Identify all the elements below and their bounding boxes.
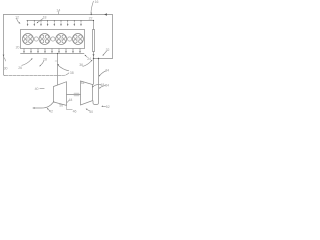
charge air cooler 22 (narrow rectangle) [93, 30, 95, 52]
wire: compressor inlet down-pipe [93, 59, 99, 105]
wire: turbine feed pipe [57, 54, 59, 86]
svg-text:30: 30 [4, 67, 8, 71]
exhaust runners with arrows [23, 49, 81, 54]
leader for 24 [85, 55, 87, 57]
svg-text:34: 34 [105, 68, 109, 72]
leader for 28 [40, 61, 44, 66]
svg-text:18: 18 [43, 16, 47, 20]
head bolt circle between cylinders 3-4 [68, 37, 72, 41]
leader for 18 [37, 19, 43, 23]
svg-text:42: 42 [49, 110, 53, 114]
wire: left vertical line [4, 15, 5, 76]
svg-text:46: 46 [73, 109, 77, 113]
arrow: flow on left line [3, 55, 5, 57]
svg-text:40: 40 [35, 87, 39, 91]
svg-text:38: 38 [70, 71, 74, 75]
svg-text:24: 24 [87, 57, 91, 61]
svg-text:48: 48 [100, 83, 104, 87]
leader for 38 [58, 65, 69, 71]
leader for 12 [17, 18, 20, 23]
engine block 12 [21, 30, 85, 49]
junction dot turbine corner [53, 101, 54, 102]
cylinder 3 [56, 34, 67, 45]
svg-text:28: 28 [43, 57, 47, 61]
leader for 36 [83, 61, 92, 67]
leader for 16 [91, 1, 93, 13]
leader for 50 [87, 109, 90, 111]
turbine 40 (left trapezoid) [54, 82, 67, 106]
intake manifold 14 [27, 20, 94, 22]
leader for 32 [103, 51, 106, 55]
junction dots [57, 14, 99, 59]
shaft [67, 94, 81, 96]
svg-text:32: 32 [106, 48, 110, 52]
head bolt circle between cylinders 2-3 [51, 37, 55, 41]
leader for 34 [100, 71, 106, 76]
leader for 42 [48, 109, 50, 111]
cylinder 2 [39, 34, 50, 45]
leader hook for 30 [4, 57, 6, 61]
wire: top intake line [4, 14, 113, 16]
wire: small drain L below turbine [67, 105, 73, 109]
wire: manifold to cooler [93, 21, 95, 30]
svg-text:36: 36 [79, 63, 83, 67]
leader for 48 [93, 84, 101, 86]
head bolt circle between cylinders 1-2 [34, 37, 38, 41]
cylinder 1 [22, 34, 33, 45]
svg-text:12: 12 [15, 16, 19, 20]
svg-text:20: 20 [16, 46, 20, 50]
svg-text:44: 44 [69, 98, 73, 102]
cylinder 4 [72, 34, 83, 45]
leader for 52 [102, 105, 105, 107]
svg-text:44: 44 [81, 81, 85, 85]
svg-text:54: 54 [105, 84, 109, 88]
leader for 40 [40, 88, 44, 90]
svg-text:14: 14 [56, 8, 60, 12]
svg-text:52: 52 [106, 105, 110, 109]
compressor 48 (right trapezoid) [81, 81, 93, 105]
leader for 44 [67, 100, 69, 102]
svg-text:22: 22 [89, 17, 93, 21]
exhaust manifold 24 [21, 53, 85, 55]
intake runners with arrows [27, 20, 82, 26]
arrow: flow on charge pipe [93, 54, 95, 56]
wire: right edge vertical [111, 15, 113, 59]
svg-text:26: 26 [18, 66, 22, 70]
svg-text:56: 56 [59, 104, 63, 108]
wire: long horizontal line to label 38 [5, 73, 69, 76]
wire: cooler to compressor pipe [92, 52, 95, 85]
svg-text:16: 16 [95, 0, 99, 4]
wire: horizontal line y=58.5 [94, 58, 113, 60]
leader for 26 [22, 59, 32, 65]
wire: exhaust outlet from turbine [34, 102, 53, 108]
arrow: flow on top line [104, 13, 107, 15]
tick near turbine pipe [55, 60, 57, 62]
leader for 54 [100, 86, 106, 88]
leader for 14 [57, 11, 59, 14]
arrow: exhaust out [32, 107, 34, 109]
svg-text:50: 50 [89, 110, 93, 114]
